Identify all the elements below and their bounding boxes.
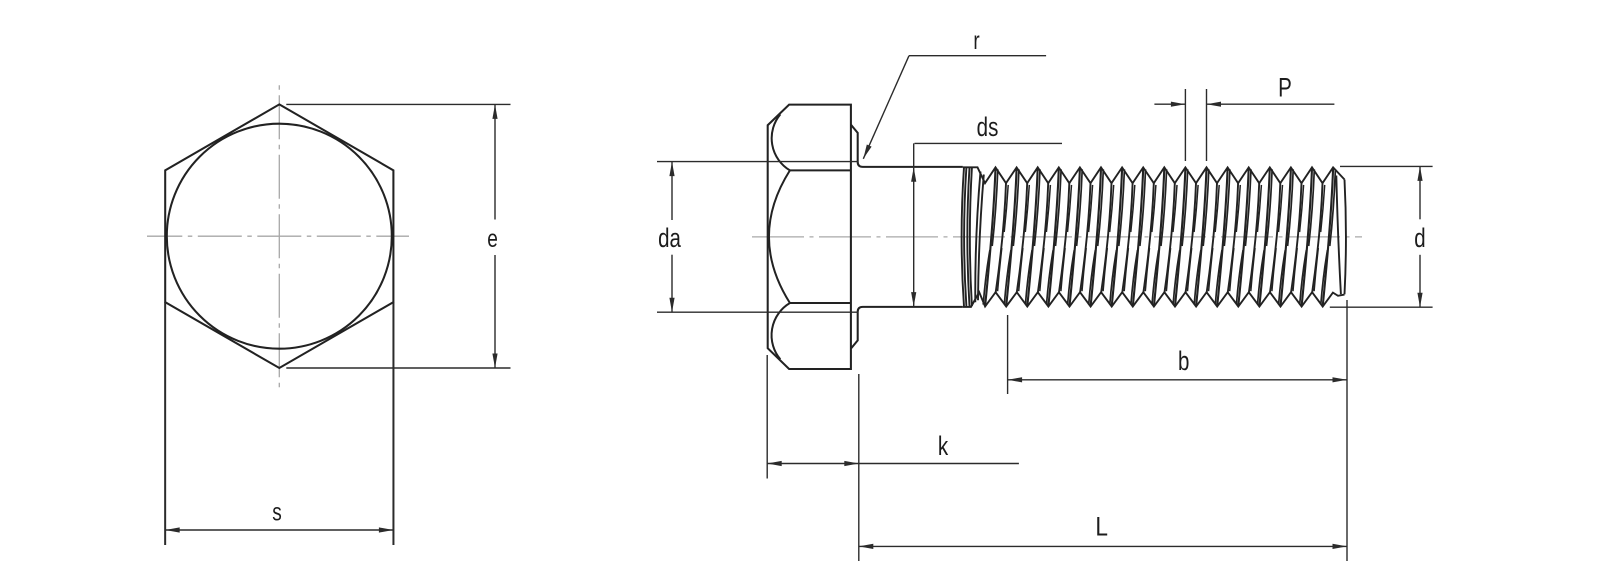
svg-text:P: P xyxy=(1278,73,1292,103)
svg-text:e: e xyxy=(487,225,498,253)
svg-text:k: k xyxy=(938,431,949,461)
svg-text:s: s xyxy=(272,499,282,527)
svg-text:r: r xyxy=(973,27,979,55)
svg-text:b: b xyxy=(1178,346,1189,376)
svg-text:ds: ds xyxy=(977,112,999,142)
svg-text:da: da xyxy=(658,223,682,253)
svg-text:d: d xyxy=(1414,223,1425,253)
svg-text:L: L xyxy=(1095,512,1108,542)
